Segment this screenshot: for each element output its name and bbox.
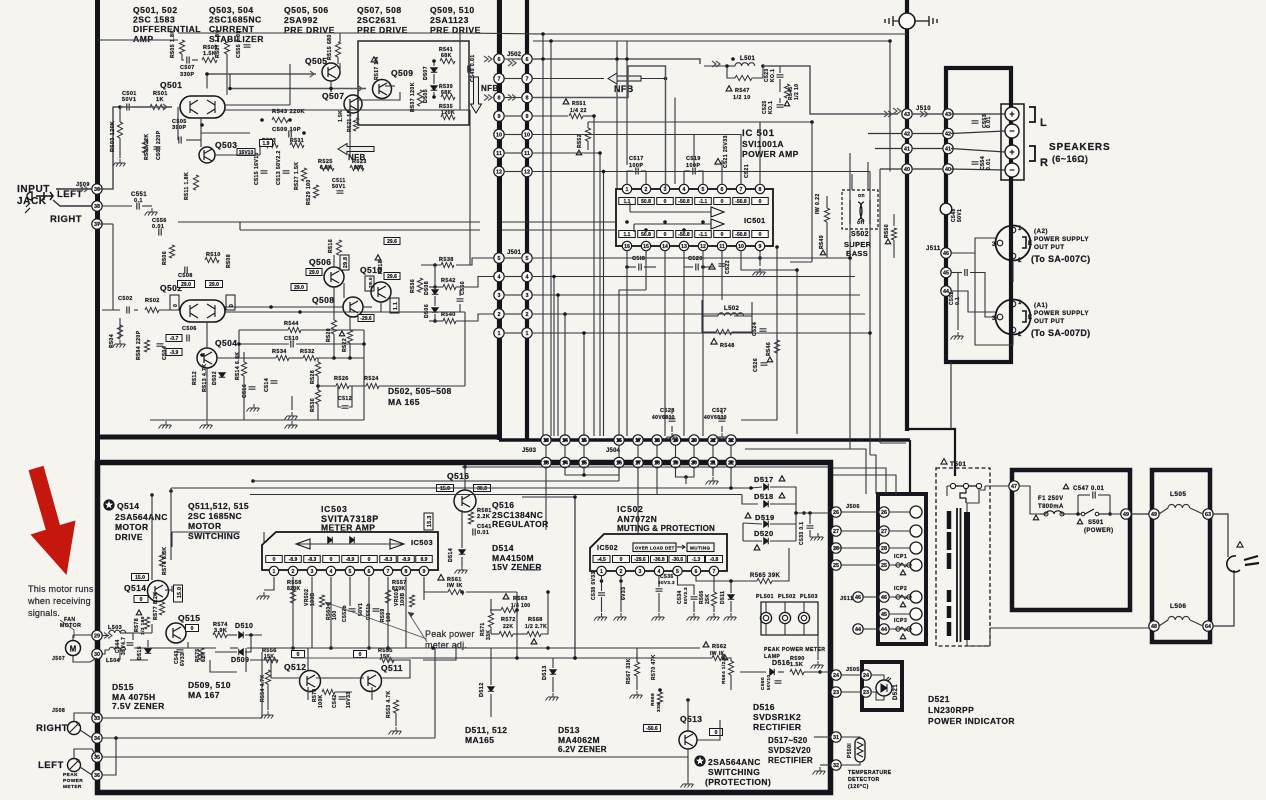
row bus corner down to J506	[909, 440, 911, 494]
junction	[729, 579, 733, 583]
svg-text:6.8K: 6.8K	[320, 165, 332, 171]
junction	[515, 656, 519, 660]
socket A1 pins	[1010, 301, 1016, 307]
wire	[120, 632, 133, 634]
junction	[600, 579, 604, 583]
junction	[808, 511, 812, 515]
svg-text:37: 37	[94, 222, 100, 228]
junction	[592, 114, 596, 118]
wire c512 loop	[338, 386, 341, 407]
svg-text:-0.8: -0.8	[710, 557, 719, 563]
capacitor C542	[339, 697, 346, 699]
fuse ICP1	[896, 563, 900, 567]
AC plug	[1227, 556, 1240, 572]
svg-text:40V6800: 40V6800	[704, 415, 727, 421]
svg-text:R530: R530	[310, 398, 316, 412]
wire	[826, 222, 828, 258]
connector J510 pin 41 (right)	[943, 143, 953, 153]
junction	[749, 486, 753, 490]
wire	[804, 671, 834, 673]
svg-text:MOTOR: MOTOR	[188, 521, 221, 531]
connector pin 49 right	[1149, 509, 1159, 519]
resistor R532	[303, 355, 316, 360]
svg-text:C524: C524	[752, 322, 758, 336]
wire	[957, 273, 959, 331]
junction	[556, 293, 560, 297]
svg-text:0: 0	[620, 557, 623, 563]
wire	[951, 169, 1005, 170]
svg-text:R578: R578	[134, 618, 140, 632]
wire 18 down	[656, 468, 658, 495]
resistor R503 120K	[117, 122, 122, 138]
svg-text:R536: R536	[410, 279, 416, 293]
wire	[434, 265, 436, 288]
wire	[296, 343, 364, 345]
svg-text:0: 0	[330, 557, 333, 563]
diode D509	[239, 649, 244, 655]
svg-text:R563: R563	[513, 596, 528, 602]
IC501 pin 3	[660, 184, 669, 193]
wire R561 out	[466, 591, 517, 593]
resistor R526	[336, 383, 349, 388]
wire	[380, 302, 382, 312]
diode internal diode A	[350, 537, 355, 543]
svg-text:J506: J506	[846, 504, 860, 510]
svg-text:D511: D511	[720, 591, 726, 604]
wire vert 594	[593, 116, 595, 436]
wire vert 364	[363, 330, 365, 420]
wire shielded to Q505	[207, 73, 316, 75]
wire	[583, 468, 585, 475]
svg-text:12: 12	[496, 169, 502, 175]
svg-text:12: 12	[700, 244, 706, 250]
resistor R514	[241, 362, 246, 376]
warning triangle	[779, 476, 785, 481]
wire top rail	[178, 32, 460, 34]
junction	[563, 312, 567, 316]
svg-text:R554 4.7K: R554 4.7K	[260, 674, 266, 702]
value label -50.8	[733, 231, 750, 238]
value label 29.6	[384, 238, 400, 245]
svg-text:0: 0	[297, 652, 300, 658]
value label 0	[613, 556, 630, 563]
svg-text:RIGHT: RIGHT	[50, 214, 82, 225]
wire	[545, 445, 547, 457]
NFB arrow mid	[338, 144, 374, 155]
wire	[151, 624, 153, 633]
wire R542 to pin4	[456, 277, 494, 288]
svg-text:C550: C550	[460, 281, 466, 295]
ground	[707, 613, 720, 621]
wire	[243, 352, 245, 362]
svg-text:25: 25	[881, 563, 887, 569]
wire	[779, 66, 781, 73]
wire vert 627	[626, 41, 628, 165]
svg-text:9: 9	[423, 569, 426, 575]
junction	[200, 123, 204, 127]
svg-text:64: 64	[1205, 624, 1211, 630]
svg-text:11: 11	[524, 151, 530, 157]
wire Q504 to cluster	[217, 357, 239, 359]
ground	[706, 477, 719, 485]
wire	[490, 648, 492, 685]
svg-text:R550: R550	[884, 224, 890, 238]
resistor R584	[144, 340, 149, 352]
wire	[727, 66, 735, 78]
wire NFB tail	[641, 78, 666, 80]
wire	[721, 160, 723, 184]
svg-text:(A1): (A1)	[1034, 302, 1048, 309]
svg-text:−: −	[1009, 126, 1014, 136]
wire	[201, 132, 250, 134]
terminal circle 46b	[910, 591, 922, 603]
svg-text:41: 41	[904, 146, 910, 152]
connector J509 pin 37	[92, 219, 102, 229]
resistor R583	[142, 140, 147, 153]
wire	[533, 171, 560, 173]
svg-text:D513: D513	[542, 665, 548, 680]
wire	[349, 600, 351, 606]
capacitor C527 40V6800	[719, 419, 726, 421]
wire R538 to pin5	[456, 258, 494, 265]
svg-text:R669: R669	[650, 693, 656, 706]
svg-text:PEAK POWER METER: PEAK POWER METER	[764, 647, 825, 653]
wire	[395, 713, 397, 726]
connector J503/J504 pin 19 (top)	[670, 435, 680, 445]
svg-text:SPEAKERS: SPEAKERS	[1049, 142, 1110, 153]
wire	[505, 97, 521, 99]
warning triangle	[745, 513, 751, 518]
connector J506 pin 25 (block)	[879, 560, 889, 570]
resistor R520	[331, 320, 336, 334]
svg-text:1/2 10: 1/2 10	[733, 95, 751, 101]
wire	[311, 600, 313, 648]
svg-text:PL501: PL501	[756, 594, 774, 600]
connector J501 pin 2 (right)	[522, 309, 532, 319]
svg-text:5: 5	[702, 187, 705, 193]
svg-text:R548: R548	[720, 343, 735, 349]
wire	[343, 283, 345, 298]
wire	[505, 294, 521, 296]
svg-text:(A2): (A2)	[1034, 228, 1048, 235]
warning triangle	[885, 239, 890, 244]
svg-text:C552b: C552b	[342, 605, 348, 622]
transistor Q506	[324, 267, 344, 287]
resistor R550r	[891, 228, 896, 240]
wire	[772, 548, 789, 581]
junction	[868, 331, 872, 335]
svg-text:LN230RPP: LN230RPP	[928, 705, 974, 715]
wire	[134, 309, 138, 311]
wire	[637, 445, 639, 457]
wire	[210, 660, 237, 672]
svg-text:Q503: Q503	[215, 140, 237, 150]
resistor R558 820K	[290, 590, 295, 603]
diode D517	[764, 484, 769, 490]
svg-text:0: 0	[140, 597, 143, 603]
svg-text:2SC2631: 2SC2631	[357, 15, 396, 25]
junction	[1076, 512, 1080, 516]
resistor R529 100	[313, 185, 318, 198]
wire	[459, 304, 461, 312]
svg-text:C527: C527	[712, 408, 727, 414]
resistor R528	[315, 362, 320, 376]
connector J502 pin 11 (left)	[494, 148, 504, 158]
capacitor C555 0.01	[244, 45, 251, 47]
svg-text:Q504: Q504	[215, 338, 237, 348]
IC501 pin 11	[717, 241, 726, 250]
connector J502 pin 10 (left)	[494, 129, 504, 139]
wire	[743, 523, 762, 524]
svg-text:D502, 505~508: D502, 505~508	[388, 386, 452, 396]
junction	[433, 285, 437, 289]
junction	[460, 590, 464, 594]
bus corner to transformer	[905, 429, 955, 476]
svg-text:33K: 33K	[656, 702, 662, 712]
value box 15.3 vertical	[424, 513, 433, 530]
svg-text:2: 2	[526, 312, 529, 318]
value label 0	[714, 231, 731, 238]
junction	[298, 310, 302, 314]
lamp PL501	[760, 612, 771, 623]
svg-text:330P: 330P	[180, 72, 194, 78]
wire bundle A left part	[745, 448, 850, 450]
junction	[731, 57, 735, 61]
svg-text:3: 3	[526, 293, 529, 299]
svg-text:1.1: 1.1	[393, 302, 399, 310]
wire	[732, 316, 752, 332]
svg-text:R529 100: R529 100	[306, 179, 312, 205]
junction	[582, 438, 586, 442]
svg-text:0.01: 0.01	[986, 158, 992, 170]
svg-text:2SA992: 2SA992	[284, 15, 318, 25]
capacitor C549 0.01	[468, 66, 470, 73]
wire	[734, 315, 752, 317]
junction	[619, 579, 623, 583]
svg-text:Q507: Q507	[322, 91, 344, 101]
svg-text:Q501, 502: Q501, 502	[133, 5, 178, 15]
wire	[520, 569, 540, 571]
wire	[644, 266, 656, 268]
svg-text:IC502: IC502	[597, 545, 618, 552]
value label -50.8	[676, 198, 693, 205]
wire	[317, 358, 319, 362]
wire pin6 to D511	[696, 576, 731, 581]
junction	[711, 438, 715, 442]
main vertical bus at right	[905, 0, 909, 431]
svg-text:7: 7	[713, 569, 716, 575]
wire pin16 down	[626, 251, 628, 436]
svg-text:R528: R528	[310, 370, 316, 384]
wire	[851, 174, 853, 190]
svg-text:OUT PUT: OUT PUT	[1034, 318, 1064, 325]
peak power meter lamp box	[761, 602, 818, 635]
wire A1 pin2 down	[975, 253, 1013, 345]
wire	[890, 547, 910, 549]
wire to J510 41	[875, 148, 902, 150]
wire shielded input	[120, 106, 169, 108]
wire	[533, 78, 560, 80]
svg-text:2SC 1583: 2SC 1583	[133, 15, 175, 25]
svg-text:R568: R568	[528, 617, 543, 623]
svg-text:D519: D519	[755, 513, 775, 522]
svg-text:C510: C510	[284, 336, 299, 342]
resistor R553 4.7K	[393, 700, 398, 713]
svg-text:R515 680: R515 680	[327, 34, 333, 60]
capacitor C503	[154, 147, 161, 149]
wire 36 up	[102, 738, 116, 775]
adj arrowhead 1	[325, 602, 332, 607]
connector J503/J504 pin 20 (bottom)	[689, 457, 699, 467]
junction	[332, 356, 336, 360]
wire	[712, 445, 714, 457]
ground	[715, 433, 728, 441]
terminal circle 28	[910, 542, 922, 554]
junction	[625, 265, 629, 269]
inductor L503	[109, 630, 126, 633]
wire bundle B to J506	[870, 455, 876, 494]
svg-text:29.0: 29.0	[181, 282, 191, 288]
ground	[813, 767, 826, 775]
svg-text:6.2V ZENER: 6.2V ZENER	[558, 745, 607, 754]
svg-text:9: 9	[526, 114, 529, 120]
svg-text:100K: 100K	[318, 694, 324, 708]
svg-text:8: 8	[405, 569, 408, 575]
wire ic503 pin down	[423, 577, 425, 600]
warning triangle	[576, 150, 581, 155]
svg-text:25: 25	[833, 563, 839, 569]
svg-text:R517 1/4: R517 1/4	[374, 57, 380, 81]
wire	[533, 97, 560, 99]
wire	[726, 658, 731, 661]
wire	[380, 660, 410, 678]
wire	[119, 318, 121, 338]
value label -1.1	[695, 198, 712, 205]
svg-text:signals.: signals.	[28, 608, 60, 618]
svg-text:29.6: 29.6	[387, 274, 397, 280]
svg-text:R510: R510	[206, 252, 221, 258]
svg-text:0: 0	[191, 626, 194, 632]
input jack symbol	[36, 192, 53, 200]
svg-text:on: on	[858, 193, 865, 199]
svg-text:100: 100	[332, 610, 338, 620]
wire to pin 26	[796, 512, 831, 514]
svg-text:27: 27	[881, 529, 887, 535]
junction	[582, 460, 586, 464]
diode D518	[764, 501, 769, 507]
capacitor C518	[639, 264, 641, 271]
wire pin9 to R561	[424, 577, 448, 592]
wire	[349, 385, 366, 387]
wire	[119, 138, 121, 158]
wire 33 up to D509	[261, 652, 263, 718]
connector bus J502/J501 right bar	[525, 0, 529, 440]
junction	[692, 438, 696, 442]
connector J501 pin 1 (right)	[522, 328, 532, 338]
wire	[97, 39, 102, 41]
wire T501 to pin 47	[985, 485, 1008, 487]
junction	[582, 331, 586, 335]
wire	[684, 170, 690, 172]
wire	[704, 65, 727, 67]
transistor Q505	[322, 63, 340, 81]
wire	[349, 343, 351, 358]
wire	[841, 530, 878, 532]
wire	[890, 613, 910, 615]
op-amp symbol A inside IC501	[711, 207, 724, 217]
svg-text:Q512: Q512	[284, 662, 306, 672]
svg-text:7: 7	[387, 569, 390, 575]
wire Q502 to Q508	[225, 306, 344, 308]
wire pin7/R566	[713, 576, 715, 592]
svg-text:15.0: 15.0	[440, 486, 450, 492]
wire	[1077, 495, 1079, 514]
svg-text:C509 10P: C509 10P	[272, 127, 301, 133]
wire ic503 internal	[296, 543, 404, 545]
junction	[169, 489, 173, 493]
junction	[818, 670, 822, 674]
ground	[389, 727, 402, 735]
warning triangle	[900, 634, 905, 639]
capacitor C524	[760, 329, 767, 331]
wire row 10 loop to pin7	[533, 135, 741, 185]
svg-text:IC 501: IC 501	[742, 128, 775, 139]
svg-text:Peak power: Peak power	[425, 629, 475, 639]
connector J510 pin 42 (left)	[902, 128, 912, 138]
wire vert 517	[516, 592, 518, 658]
wire vert 543	[542, 34, 544, 436]
wire 22 down	[730, 468, 732, 488]
resistor R505 1.8K	[179, 40, 184, 54]
svg-text:2: 2	[620, 569, 623, 575]
resistor R549r	[824, 208, 829, 222]
capacitor C552v	[349, 609, 356, 611]
connector J505 pin 24	[831, 670, 841, 680]
power indicator block	[862, 662, 902, 710]
bus junction node	[899, 13, 915, 29]
wire pin8 top	[759, 122, 761, 184]
resistor R509 1.5K	[202, 57, 217, 62]
svg-text:R552: R552	[577, 134, 583, 148]
capacitor C522	[719, 264, 726, 266]
value label -8.3	[380, 556, 397, 563]
svg-text:45: 45	[881, 612, 887, 618]
junction	[1108, 512, 1112, 516]
svg-text:D520: D520	[754, 529, 774, 538]
svg-text:(6~16Ω): (6~16Ω)	[1052, 154, 1088, 164]
svg-text:50V10: 50V10	[766, 675, 771, 690]
wire 45	[951, 272, 962, 274]
resistor R525 6.8K	[320, 165, 334, 170]
junction	[150, 493, 154, 497]
wire	[627, 171, 633, 184]
wire	[1098, 494, 1110, 496]
svg-text:Q516: Q516	[447, 471, 469, 481]
junction	[848, 256, 852, 260]
svg-text:24: 24	[833, 673, 839, 679]
connector J501 pin 5 (right)	[522, 253, 532, 263]
svg-text:R562: R562	[712, 644, 727, 650]
svg-text:R577 8.2K: R577 8.2K	[153, 592, 159, 620]
junction	[711, 460, 715, 464]
svg-text:R547: R547	[735, 88, 750, 94]
wire vert 694	[693, 135, 695, 168]
svg-text:29.6: 29.6	[387, 239, 397, 245]
connector J509 pin 38	[92, 201, 102, 211]
junction	[549, 39, 553, 43]
wire	[363, 306, 372, 308]
diode D513	[550, 670, 556, 675]
